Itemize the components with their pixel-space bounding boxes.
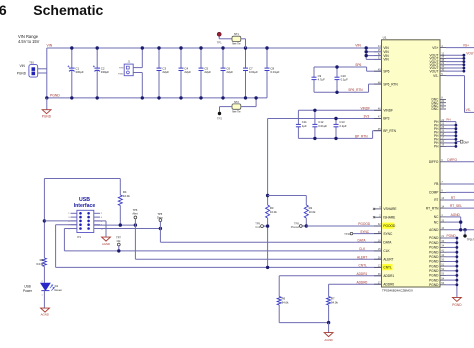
svg-text:P1: P1 [78,235,82,239]
svg-text:SP6_RTN: SP6_RTN [383,82,398,86]
svg-text:PGOOD: PGOOD [383,224,396,228]
svg-text:AGND: AGND [102,242,110,246]
title section number 6 [0,2,7,18]
svg-text:ADDR0: ADDR0 [383,282,394,286]
svg-text:RT: RT [451,196,455,200]
wire pullup rail [268,195,307,197]
wire ADDR1 vertical [278,276,280,323]
svg-text:DATA: DATA [383,240,392,244]
svg-text:PGND: PGND [50,93,60,97]
U1 pin DATA [374,239,392,244]
svg-text:0.01µF: 0.01µF [270,70,279,74]
junction C3 bottom [157,96,160,99]
capacitor C10 [335,67,349,92]
testpoint TP5 [157,212,163,242]
svg-text:COMP: COMP [429,191,439,195]
testpoint TP10 [344,232,353,236]
svg-text:VOUT: VOUT [466,52,474,56]
svg-text:Cntl: Cntl [255,225,260,229]
wire ADDR1 [279,275,381,277]
ground AGND below R7 [324,323,333,342]
net label RT [451,196,455,200]
wire COMP out [446,191,474,193]
wire RT out [446,199,474,201]
junction C8 top [265,46,268,49]
U1 pin VS+ [432,45,446,50]
junction C2 top [96,46,99,49]
U1 right pins PH [434,119,446,149]
svg-text:AGND: AGND [324,338,332,342]
junction ADDR bottom [327,321,330,324]
net label ADDR0 [357,280,368,284]
testpoint TP9 [255,221,267,228]
svg-text:ALERT: ALERT [357,255,367,259]
svg-text:2: 2 [41,281,42,283]
testpoint TP8 [291,221,307,228]
svg-text:PGND: PGND [429,255,439,259]
svg-text:NT2: NT2 [234,100,239,104]
svg-text:AGND: AGND [41,313,49,317]
svg-text:Interface: Interface [74,203,96,209]
U1 right pins VOUT [430,52,446,73]
junction C13 top [334,117,337,120]
junction VBUS row3 [43,219,46,222]
svg-text:34.0k: 34.0k [331,300,338,304]
capacitor C1 [68,48,84,98]
resistor R4 [118,190,130,206]
junction C3 top [157,46,160,49]
label USB Interface [74,197,96,209]
U1 pin SP6 [374,68,390,73]
junction C7 bottom [244,96,247,99]
svg-text:BP_RTN: BP_RTN [355,135,368,139]
net label SYNC [360,230,370,234]
testpoint TP7 [116,236,121,253]
wire CLK loop [64,229,77,251]
net label CNTL [359,264,368,268]
svg-text:CLK: CLK [359,247,366,251]
junction C7 top [244,46,247,49]
svg-text:ISHARE: ISHARE [383,215,395,219]
capacitor C7 [243,48,258,98]
wire ALERT [135,258,381,260]
wire J1 pin1 [133,48,142,68]
svg-text:PGND: PGND [429,241,439,245]
IC U1 body [382,36,441,287]
svg-text:6: 6 [0,2,7,18]
svg-text:PVIN: PVIN [119,67,124,69]
svg-text:BP_RTN: BP_RTN [383,129,396,133]
net label SP6 [355,63,361,67]
capacitor C2 [93,48,109,98]
testpoint TP6 [132,208,138,259]
svg-text:VSHARE: VSHARE [383,207,396,211]
svg-text:VINDF: VINDF [383,109,393,113]
ground AGND below P1 [94,221,111,246]
net label VS+ [463,44,469,48]
junction C12 top [313,109,316,112]
DNP probe pad [456,140,469,144]
svg-text:TPS546B24ACZBMGX: TPS546B24ACZBMGX [382,288,413,292]
svg-text:RT_SEL: RT_SEL [450,204,462,208]
svg-text:BP3: BP3 [383,117,389,121]
svg-text:PGND: PGND [452,303,462,307]
svg-text:22µF: 22µF [226,70,233,74]
net label VIN at U1 [355,44,361,48]
net label PGND right [447,234,457,238]
wire R2 vertical [305,196,307,227]
junction C1 top [70,46,73,49]
svg-text:PGND: PGND [42,114,52,118]
svg-text:0.01µF: 0.01µF [318,124,327,128]
junction C4 top [179,46,182,49]
U1 pin BP3 [374,116,390,121]
U1 right pins PGND [429,235,446,287]
net label BP_RTN [355,135,368,139]
junction C2 bottom [96,96,99,99]
svg-text:CNTL: CNTL [359,264,368,268]
svg-text:TP7: TP7 [116,236,121,240]
svg-text:PGND: PGND [429,274,439,278]
net label DATA [358,238,367,242]
junction J1 top [141,46,144,49]
junction TP9 [266,224,269,227]
junction R4 line1 [119,223,122,226]
wire CLK [64,250,381,252]
title Schematic [33,2,103,18]
svg-text:10.0k: 10.0k [270,210,277,214]
wire PGND rail [47,97,267,99]
connector P1 USB header [77,210,94,239]
svg-text:PGND: PGND [429,278,439,282]
svg-text:TP2: TP2 [217,117,222,121]
svg-text:SP6_RTN: SP6_RTN [348,88,363,92]
svg-text:Green: Green [54,288,62,292]
wire line2 row5 [94,228,161,230]
wire J1 pin2 [133,73,142,98]
wire ADDR bottom [279,322,328,324]
U1 pin PGOOD [374,223,396,229]
wire FB out [446,183,474,185]
wire DIFFO out [446,161,474,163]
svg-text:VIN: VIN [47,44,53,48]
junction J1 bottom [141,96,144,99]
junction CNTL R3 [266,266,269,269]
IC U1 part number [382,288,413,292]
wire rail to P1 row3 [44,220,77,222]
U1 pin VSHARE [373,206,397,211]
wire NC1 out [446,217,461,230]
svg-text:Alert: Alert [132,212,138,216]
svg-text:VIN: VIN [19,64,25,68]
svg-text:PH: PH [434,145,439,149]
net label CLK [359,247,366,251]
resistor R3 [266,205,278,218]
resistor R7 [327,297,339,306]
U1 pin COMP [429,190,446,195]
wire VIN bus [365,46,382,59]
svg-text:ADDR1: ADDR1 [357,272,368,276]
U1 left pins VIN [374,45,389,61]
svg-text:PGOOD: PGOOD [358,222,371,226]
net label RT_SEL [450,204,462,208]
svg-text:PGND: PGND [429,264,439,268]
wire 3V3 to pullups [267,119,269,268]
net label VINDF [361,107,371,111]
capacitor C13 [334,119,347,139]
junction C6 top [221,46,224,49]
note VIN range [18,34,40,44]
wire BP_RTN [298,131,381,139]
U1 pin NC 33 [434,219,446,224]
svg-text:PGood: PGood [291,225,300,229]
junction pullup rail left [266,194,269,197]
capacitor C4 [179,48,192,98]
net label VIN [47,44,53,48]
svg-text:PGND: PGND [447,234,457,238]
svg-text:VS-: VS- [466,108,471,112]
U1 pin CNTL [374,264,393,270]
wire ADDR0 [329,283,382,285]
svg-text:TP5: TP5 [157,212,162,216]
svg-text:34.0k: 34.0k [282,300,289,304]
svg-text:PGND: PGND [429,246,439,250]
U1 pin FB [434,181,446,186]
junction C10 bottom [335,91,338,94]
svg-text:RT_RTN: RT_RTN [426,206,439,210]
svg-text:0.01µF: 0.01µF [249,70,258,74]
junction C6 bottom [221,96,224,99]
net label PGND on rail [50,93,60,97]
svg-text:22µF: 22µF [204,70,211,74]
capacitor C11 [296,110,307,138]
wire R5 to D1 [43,267,45,283]
svg-text:TP10: TP10 [344,233,350,236]
svg-text:2.2µF: 2.2µF [339,124,346,128]
wire line1 row4 [94,224,136,226]
wire VINDF [298,109,381,111]
svg-text:Net-Tie: Net-Tie [232,110,241,114]
junction C4 bottom [179,96,182,99]
junction C5 top [199,46,202,49]
net label ALERT [357,255,367,259]
capacitor C8 [265,48,280,98]
resistor R6 [277,297,289,306]
svg-text:CNTL: CNTL [383,266,392,270]
svg-text:ADDR1: ADDR1 [383,274,394,278]
label PGND at TB1 [17,72,27,76]
ground AGND below D1 [41,291,50,317]
svg-text:RT: RT [434,198,438,202]
U1 pin RT_RTN [426,205,446,210]
wire DATA [160,241,381,243]
wire NC2 out [446,220,462,223]
svg-text:PGND: PGND [429,236,439,240]
U1 pin BP_RTN [374,128,397,133]
svg-text:VINDF: VINDF [361,107,371,111]
U1 pin ISHARE [373,214,395,219]
svg-text:PGND: PGND [429,283,439,287]
net label SP6_RTN [348,88,363,92]
svg-text:VIN: VIN [355,44,361,48]
wire AGND out [446,228,474,231]
wire VIN rail [47,47,366,49]
svg-text:TP1: TP1 [217,41,222,45]
svg-text:VIN: VIN [383,58,389,62]
svg-text:Net-Tie: Net-Tie [232,42,241,46]
svg-text:PGND: PGND [429,269,439,273]
svg-text:PGND: PGND [118,73,124,75]
svg-text:USB: USB [24,285,31,289]
junction C5 bottom [199,96,202,99]
svg-text:3V3: 3V3 [364,115,370,119]
svg-text:PGND: PGND [429,250,439,254]
svg-text:VOUT: VOUT [430,69,439,73]
label USB Power [23,285,33,293]
svg-text:TP9: TP9 [255,221,260,225]
svg-text:NC: NC [434,215,439,219]
net label ADDR1 [357,272,368,276]
jumper J1 [118,60,133,76]
svg-text:ALERT: ALERT [383,257,393,261]
testpoint TP1 [217,32,232,44]
svg-text:22µF: 22µF [162,70,169,74]
svg-text:ADDR0: ADDR0 [357,280,368,284]
net label PH [446,118,450,122]
svg-text:TB1: TB1 [29,60,34,64]
U1 pin RT [434,197,446,202]
svg-text:10.0k: 10.0k [123,194,130,198]
wire ADDR0 vertical [328,284,330,322]
ground PGND below input [42,96,52,118]
U1 pin DIFFO [429,159,446,164]
net label AGND right [451,213,461,217]
svg-text:PGND: PGND [429,260,439,264]
svg-text:SYNC: SYNC [360,230,370,234]
wire PGND bus [446,237,458,298]
junction C10 top [335,65,338,68]
net label 3V3 [364,115,370,119]
svg-text:DIFFO: DIFFO [447,158,457,162]
capacitor C5 [199,48,212,98]
svg-text:SYNC: SYNC [383,232,393,236]
capacitor C3 [157,48,170,98]
svg-text:6.04k: 6.04k [36,262,43,266]
svg-text:Schematic: Schematic [33,2,103,18]
wire PGOOD [306,225,381,227]
capacitor C12 [312,110,327,138]
U1 pin SYNC [374,231,393,236]
svg-text:DIFFO: DIFFO [429,160,439,164]
svg-text:AGND: AGND [429,228,439,232]
net label PGOOD [358,222,371,226]
wire VS+ out [446,47,474,49]
junction C13 bottom [334,137,337,140]
net label DIFFO [447,158,457,162]
svg-text:NC: NC [434,220,439,224]
wire TB1 pin2 stub [38,72,47,74]
wires P1 pin stubs [68,213,103,230]
wire PH bus [446,122,457,148]
U1 pin ADDR1 [374,273,394,278]
svg-text:CLK: CLK [383,249,390,253]
svg-text:4.5V to 15V: 4.5V to 15V [18,39,40,44]
connector TB1 [29,60,38,77]
U1 pin NC 1 [434,214,446,219]
wire SP6 top [314,67,382,71]
svg-text:Power: Power [23,289,33,293]
U1 pin VINDF [374,108,393,113]
U1 pin CLK [374,248,390,253]
svg-text:SP6: SP6 [383,69,389,73]
wire VBUS top to R4 [44,179,120,196]
wire CNTL loop [56,225,77,268]
svg-text:VS+: VS+ [432,46,438,50]
wire RT_RTN out [446,207,474,209]
svg-text:DNC: DNC [431,107,439,111]
svg-text:1: 1 [41,294,42,296]
wire TB1 vertical [46,48,48,98]
svg-text:VS-: VS- [433,74,438,78]
wire VS- out [446,76,474,113]
wire SYNC [353,233,382,235]
svg-text:TP6: TP6 [133,208,138,212]
net-tie NT1 [232,32,246,48]
junction TP5 line2 [159,227,162,230]
junction C1 bottom [70,96,73,99]
svg-text:10.0k: 10.0k [309,210,316,214]
net-tie NT2 [220,98,257,114]
resistor R2 [304,205,316,218]
U1 pin VS- [433,73,446,78]
svg-text:1µF: 1µF [302,124,307,128]
resistor R5 [36,258,46,267]
svg-text:U1: U1 [383,36,387,40]
testpoint TP2 [217,112,222,121]
svg-text:330µF: 330µF [75,70,83,74]
U1 pin SP6_RTN [374,81,398,86]
testpoint TP26 [463,230,474,242]
U1 pin ALERT [374,256,394,261]
wire VBUS rail [43,179,45,259]
wire R4 bottom [119,206,121,226]
wire TB1 pin1 stub [38,68,47,70]
U1 pin AGND [429,227,446,232]
ground PGND right [452,297,462,306]
svg-text:0.1µF: 0.1µF [341,78,348,82]
wire CNTL [56,266,382,268]
label VIN at TB1 [19,64,25,68]
net label VS- [466,108,471,112]
U1 pin ADDR0 [374,281,394,286]
junction NT2 rail [254,96,257,99]
U1 right pins DNC [431,97,446,112]
wire VOUT bus [446,54,465,73]
svg-text:22µF: 22µF [184,70,191,74]
svg-text:4.7µF: 4.7µF [318,78,325,82]
capacitor C9 [312,67,326,92]
net label VOUT [466,52,474,56]
svg-text:VIN Range: VIN Range [18,34,39,39]
svg-text:PGND: PGND [17,72,27,76]
wire 3V3 [268,118,382,120]
junction C12 bottom [313,137,316,140]
svg-text:330µF: 330µF [101,70,109,74]
svg-text:VS+: VS+ [463,44,469,48]
junction TP8 [305,224,308,227]
svg-text:TP8: TP8 [294,221,299,225]
junction TP6 line1 [134,223,137,226]
